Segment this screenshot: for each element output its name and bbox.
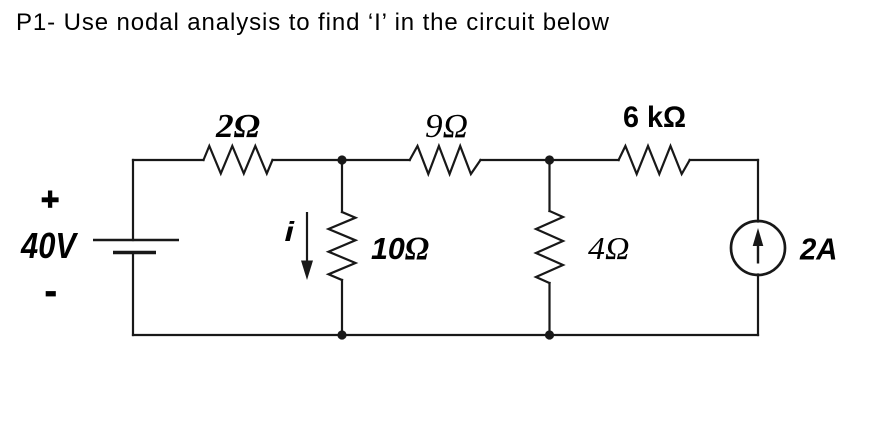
svg-text:2A: 2A: [799, 232, 837, 267]
svg-text:4Ω: 4Ω: [588, 230, 630, 266]
svg-text:i: i: [285, 216, 296, 247]
svg-text:2Ω: 2Ω: [215, 108, 260, 145]
svg-text:9Ω: 9Ω: [425, 108, 468, 145]
svg-text:40V: 40V: [20, 225, 78, 266]
svg-text:P1- Use nodal analysis to find: P1- Use nodal analysis to find ‘I’ in th…: [16, 9, 610, 36]
svg-text:6 kΩ: 6 kΩ: [623, 101, 686, 134]
svg-text:10Ω: 10Ω: [371, 231, 429, 267]
